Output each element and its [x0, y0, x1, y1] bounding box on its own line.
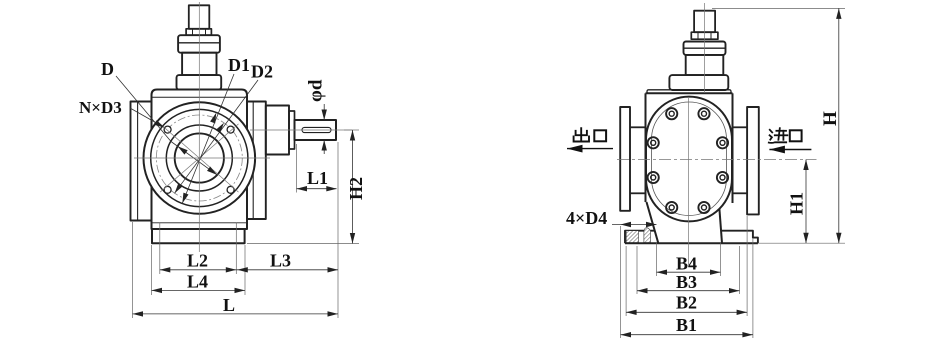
- bearing end cap: [289, 111, 295, 149]
- gear chamber obround cover: [646, 97, 732, 222]
- extension line L left: [132, 222, 134, 318]
- label jin-kou (inlet): [769, 128, 802, 143]
- shaft keyway: [302, 127, 331, 132]
- inlet flow arrow: [769, 149, 811, 151]
- relief valve flange (right view): [684, 42, 726, 55]
- svg-text:4×D4: 4×D4: [566, 208, 607, 228]
- phi-d dimension: [323, 104, 325, 120]
- svg-text:D1: D1: [228, 55, 250, 75]
- extension line H2 bottom: [247, 243, 359, 245]
- char chu: [574, 128, 589, 141]
- bolt 6: [717, 172, 728, 183]
- spigot circle: [166, 125, 232, 191]
- bearing housing (left view): [266, 106, 289, 155]
- extension line L1 left: [296, 144, 298, 193]
- vertical centerline (left view): [198, 2, 200, 252]
- dimension L: [133, 313, 339, 315]
- svg-text:D: D: [101, 59, 114, 79]
- extension line B2 right: [746, 216, 748, 316]
- relief valve body (right view): [686, 55, 724, 75]
- relief valve nut (left view): [186, 29, 211, 35]
- body top plate (right view): [647, 90, 731, 94]
- left foot: [625, 231, 655, 244]
- extension line B3 right: [739, 246, 741, 294]
- extension line L2/L3 shared: [235, 223, 237, 274]
- dimension H1: [805, 160, 807, 244]
- bolt 1: [666, 108, 677, 119]
- right side port plate (left view): [247, 102, 266, 220]
- 4xD4 leader: [612, 224, 657, 226]
- left flange plate (right view): [620, 107, 630, 211]
- right foot: [722, 231, 758, 244]
- dimension B1: [621, 334, 753, 336]
- relief valve base (left view): [177, 75, 222, 89]
- pedestal left slant: [647, 202, 659, 243]
- left foot bolt hatch left: [626, 231, 638, 243]
- outlet flow arrow: [567, 148, 613, 150]
- right flange plate (right view): [747, 107, 759, 214]
- bore circle: [175, 133, 224, 182]
- baseline: [625, 242, 758, 244]
- bolt 7: [666, 202, 677, 213]
- left port neck: [630, 126, 646, 128]
- pedestal right slant: [719, 204, 722, 244]
- diagonal centerline B: [160, 124, 238, 192]
- bolt circle (dash-dot): [156, 115, 242, 201]
- extension line L1/L3/L right: [337, 142, 339, 318]
- ports centerline (right view): [617, 159, 817, 161]
- extension line B1 right: [752, 238, 754, 338]
- svg-text:B1: B1: [676, 315, 697, 335]
- svg-text:H: H: [820, 111, 841, 126]
- left side port plate (left view): [131, 102, 152, 221]
- inner cover step: [652, 102, 727, 216]
- dimension L4: [152, 289, 246, 291]
- relief valve nut (right view): [691, 32, 718, 39]
- flange outer circle: [144, 102, 256, 214]
- bolt 4: [717, 137, 728, 148]
- dimension L1: [297, 188, 337, 190]
- extension line L4 right: [244, 245, 246, 295]
- extension line B2 left: [625, 246, 627, 316]
- svg-text:φd: φd: [306, 79, 327, 102]
- bolt hole bottom-left: [164, 186, 171, 193]
- svg-text:H2: H2: [346, 177, 366, 200]
- relief valve base (right view): [669, 75, 728, 90]
- diagonal centerline A: [160, 124, 238, 192]
- cover bolts (8x): [648, 108, 729, 213]
- dimension B4: [657, 271, 721, 273]
- shaft centerline (left view): [250, 129, 352, 131]
- bolt 3: [648, 137, 659, 148]
- relief valve body (left view): [182, 53, 216, 75]
- extension line L2 left: [159, 223, 161, 274]
- bolt hole top-left: [164, 126, 171, 133]
- relief valve flange (left view): [178, 35, 220, 53]
- dimension H2: [352, 130, 354, 244]
- dimension B2: [626, 311, 747, 313]
- leader N×D3: [130, 108, 164, 127]
- svg-text:N×D3: N×D3: [79, 98, 122, 117]
- body centerline (right view): [688, 97, 690, 265]
- drive shaft: [295, 120, 337, 140]
- dimension L2: [160, 269, 237, 271]
- extension line B3 left: [636, 246, 638, 294]
- pump body square (left view): [152, 90, 248, 230]
- dimension line D2: [175, 80, 258, 193]
- extension line H2 top: [344, 129, 359, 131]
- bolt hole bottom-right: [227, 186, 234, 193]
- dimension B3: [637, 290, 740, 292]
- svg-text:L3: L3: [270, 251, 291, 271]
- dimension line D: [116, 76, 217, 175]
- base plate (left view): [152, 229, 245, 243]
- relief valve stem (right view): [694, 11, 715, 33]
- bolt 2: [698, 108, 709, 119]
- svg-text:L2: L2: [187, 251, 208, 271]
- svg-text:L4: L4: [187, 272, 208, 292]
- relief valve stem (left view): [189, 5, 210, 29]
- left foot bolt hatch right: [644, 228, 651, 243]
- horizontal centerline (left view): [134, 157, 270, 159]
- pump body (right view): [646, 92, 733, 94]
- svg-text:H1: H1: [787, 192, 807, 215]
- extension line B1 left: [620, 226, 622, 338]
- svg-text:B3: B3: [676, 272, 697, 292]
- dimension L3: [236, 269, 338, 271]
- svg-text:L: L: [223, 295, 235, 315]
- flange step circle: [151, 109, 248, 206]
- extension line B4 left: [656, 242, 658, 276]
- bolt hole top-right: [227, 126, 234, 133]
- extension line H top: [712, 7, 845, 9]
- bolt 8: [698, 202, 709, 213]
- svg-text:B4: B4: [676, 253, 697, 273]
- dimension H: [838, 8, 840, 243]
- dimension line D1: [182, 74, 234, 203]
- label chu-kou (outlet): [574, 128, 607, 141]
- char kou (outlet): [594, 130, 606, 141]
- svg-text:L1: L1: [307, 168, 328, 188]
- bolt 5: [648, 172, 659, 183]
- right port neck: [733, 126, 748, 128]
- extension line L4 left: [151, 245, 153, 295]
- char jin: [769, 128, 788, 143]
- svg-text:D2: D2: [251, 62, 273, 82]
- extension line H bottom: [758, 242, 845, 244]
- char kou (inlet): [790, 130, 802, 141]
- valve centerline (right view): [704, 3, 706, 93]
- svg-text:B2: B2: [676, 293, 697, 313]
- extension line B4 right: [720, 242, 722, 276]
